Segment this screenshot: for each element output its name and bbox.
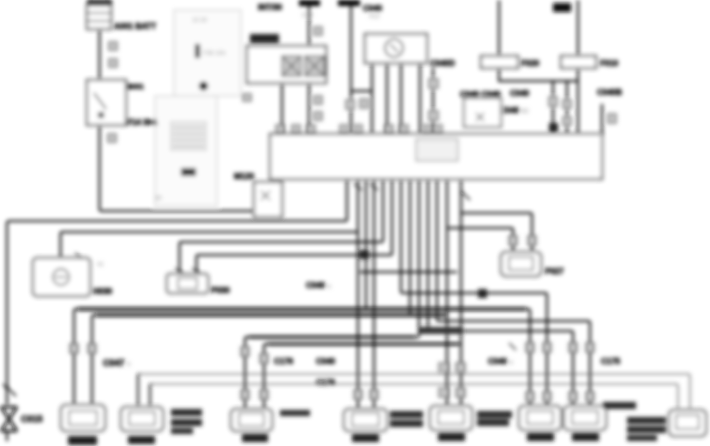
ignition wire 4 (419, 63, 421, 134)
wire relay pin 1 down (281, 83, 283, 134)
band2 top thick segment (249, 336, 415, 339)
svg-text:C047 x: C047 x (103, 358, 131, 368)
pin P043 right lower (260, 390, 268, 399)
svg-text:C040 B2: C040 B2 (500, 106, 529, 115)
svg-text:F14 30A: F14 30A (127, 118, 158, 127)
pin row above junction unit 7 (400, 125, 408, 133)
component box: dashboard assembly lower part (155, 96, 217, 206)
pin a on stub (429, 79, 438, 88)
terminal cap node 2 (338, 0, 360, 6)
connector P076 inner (676, 415, 699, 429)
pin P041 right (370, 390, 378, 399)
label 30 cap (553, 3, 571, 12)
wire fuse F020 top (498, 0, 500, 56)
ignition switch rotor (385, 39, 403, 57)
wire code right of P041 line1 (390, 411, 423, 418)
pin row above junction unit 5 (354, 125, 362, 133)
wire fusebox down to bottom rail (100, 125, 255, 211)
pin P047 right lower (586, 392, 594, 401)
svg-text:C040D: C040D (430, 59, 455, 68)
wire branch col12 east to P027 left (447, 228, 513, 252)
ignition switch rotor mark (390, 44, 398, 52)
svg-text:C040: C040 (363, 4, 383, 13)
connector P046 inner (527, 411, 553, 424)
wire code left of P076 line1 (627, 417, 666, 424)
horn H030 box (33, 258, 90, 296)
relay contact 2 (305, 56, 324, 76)
splice box SP (254, 182, 282, 217)
wire battery to fusebox (99, 29, 101, 80)
relay contact 1 (282, 56, 301, 76)
pin on relay wire a (314, 96, 322, 104)
wire stub x433 (432, 68, 434, 134)
dashboard inner table lines (173, 128, 204, 146)
pin 2 battery wire (109, 59, 117, 67)
connector P038 (61, 405, 105, 431)
svg-text:30: 30 (155, 196, 162, 202)
pin x553 lower junction (549, 123, 558, 132)
fusebox B1 (87, 80, 126, 125)
connector P038 label (68, 436, 97, 445)
svg-text:C040 a: C040 a (488, 357, 513, 366)
fusebox B1 fuse symbol (94, 93, 106, 109)
wire code dash right of P043 (280, 410, 310, 416)
pin row above junction unit 2 (292, 125, 300, 133)
wire trunk col12 down to P045 left (446, 179, 448, 406)
pin P045 right upper (456, 363, 465, 372)
wire fuse F010 top (577, 0, 579, 56)
svg-text:C040: C040 (316, 357, 336, 366)
svg-text:C176: C176 (316, 378, 336, 387)
dashboard dark mark lower (181, 168, 196, 176)
svg-text:M120: M120 (234, 172, 255, 181)
pin on P027 wire right (528, 236, 536, 245)
band2 bottom thick segment (268, 343, 458, 346)
pin P047 left lower (569, 392, 577, 401)
wire branch x567 (566, 81, 568, 134)
pin P045 right lower (456, 388, 465, 397)
pin row above junction unit 6 (385, 125, 393, 133)
svg-text:C040: C040 (510, 89, 530, 98)
pump P030 inner (178, 278, 197, 289)
ground splice symbol C015 (1, 407, 17, 431)
junction dot on wire y255 (360, 250, 369, 259)
svg-text:P027: P027 (545, 267, 564, 276)
bus wire band1 top P038 left to P046 left (74, 309, 530, 406)
wire trunk col10 east y331 to P047 left (428, 179, 573, 406)
pin P046 right lower (543, 392, 551, 401)
wire code text block right of P039 line1 (171, 409, 202, 416)
pin P046 right upper (543, 343, 551, 352)
wire code text block right of P039 line2 (171, 419, 202, 426)
svg-text:B001: B001 (127, 84, 144, 91)
ignition wire 2 (386, 63, 388, 134)
connector P046 (519, 406, 561, 430)
wire code dash above P076 (603, 402, 636, 409)
svg-text:C175: C175 (601, 357, 621, 366)
splice box pin cross (261, 191, 270, 200)
component box: dashboard assembly upper part (174, 10, 241, 96)
relay contact 2 cross (305, 56, 324, 76)
pin on terminal wire (314, 27, 322, 35)
ignition switch box (365, 34, 427, 63)
connector P039 inner (129, 412, 155, 425)
wire trunk col8 filler to band bottom (409, 179, 411, 315)
dashboard fuse mark (195, 44, 200, 58)
connector P047 inner (572, 411, 598, 424)
pin on relay wire b (314, 112, 322, 120)
connector P027 inner (509, 257, 533, 270)
tick right zone (509, 343, 516, 350)
pin x553 upper (549, 97, 557, 106)
pin P047 left upper (569, 343, 577, 352)
battery A1 terminal cap (87, 0, 112, 6)
connector P047 label (572, 433, 599, 441)
tick below junction unit col4 (370, 184, 378, 190)
pin b on stub (429, 111, 438, 120)
svg-text:F36 10A: F36 10A (203, 51, 226, 57)
wire code right of P041 line2 (390, 420, 423, 427)
connector P047 (564, 406, 606, 430)
relay label B002 (250, 34, 279, 43)
wire trunk col1 to left rail (7, 179, 347, 405)
bus wire band1 bottom P038 right (92, 315, 447, 405)
pin row above junction unit 9 (434, 125, 442, 133)
wire trunk col11 east y321 to P047 right (437, 179, 590, 406)
bus wire band1 bottom thick segment (96, 313, 445, 316)
pin P046 left upper (526, 343, 534, 352)
bus wire band1 top thick segment (78, 307, 526, 310)
pin row above junction unit 3 (307, 125, 315, 133)
pin on P027 wire left (509, 236, 517, 245)
connector P039 label (128, 436, 155, 444)
wire trunk col9 west to P043 left (245, 179, 419, 409)
wire trunk col2 down to P041 left (357, 179, 359, 409)
connector P046 label (527, 433, 554, 441)
ignition wire 3 (400, 63, 402, 134)
pin tick P030 wire2 (192, 268, 200, 273)
wire code left of P076 line3 (627, 435, 657, 441)
pin x567 lower (563, 117, 571, 125)
wire branch col13 east to P027 right (461, 213, 532, 252)
pin P045 left upper (439, 363, 448, 372)
pin on stub x593 (608, 114, 616, 123)
connector P045 label (438, 433, 465, 441)
wire fuse F020 to bus (499, 68, 577, 81)
pin tick P030 wire1 (175, 268, 183, 273)
connector P041 label (352, 434, 379, 442)
svg-text:n1: n1 (97, 262, 104, 268)
svg-text:C10: C10 (302, 13, 314, 19)
wire relay pin 2 down (308, 83, 310, 134)
wire trunk col3 filler to band (365, 179, 367, 309)
pin P045 left lower (439, 388, 448, 397)
junction unit inner module (416, 139, 458, 161)
svg-text:A001 BATT: A001 BATT (114, 22, 156, 31)
pin pair P038 right (88, 344, 96, 353)
ground wire tick (3, 384, 16, 396)
wire branch col2 to horn H030 (61, 232, 359, 258)
relay contact 1 cross (282, 56, 301, 76)
junction square on y293 (478, 289, 487, 298)
thick junction bar (419, 327, 463, 334)
pin P043 right (260, 354, 268, 363)
connector P076 (669, 410, 706, 436)
pin x567 upper (563, 100, 571, 108)
wire trunk col7 east to P046 right (401, 179, 547, 406)
horn symbol detail (55, 276, 67, 278)
wire code right of P045 line2 (477, 419, 509, 426)
dashboard black dot (199, 82, 208, 91)
horn symbol (53, 269, 69, 285)
wire trunk col13 down to P045 right (460, 179, 462, 406)
fusebox B1 inner dot (98, 112, 104, 118)
pin P043 left lower (241, 390, 249, 399)
wire code text block right of P039 line3 (171, 428, 193, 434)
connector box with pin (464, 98, 501, 127)
wire branch col13 west to P043 right (264, 344, 461, 409)
pin P041 left (354, 390, 362, 399)
wire P039 left (138, 374, 140, 407)
tick below junction unit col2 (354, 184, 362, 190)
pin on ignition wire 1 (360, 99, 368, 108)
connector P043 label (242, 434, 268, 442)
pump P030 box (167, 274, 208, 293)
pin row above junction unit 8 (423, 125, 431, 133)
connector P039 (121, 407, 163, 431)
pin tick horn top (75, 253, 83, 259)
wire fuse F010 down (577, 68, 579, 134)
connector P038 inner (69, 411, 97, 425)
jog link on long wire (351, 90, 372, 92)
wire stub x593 (601, 104, 603, 134)
svg-text:C176: C176 (274, 357, 294, 366)
long wire from terminal 2 down to junction unit (350, 6, 352, 134)
dashboard inner table (171, 122, 206, 150)
battery A1 internal plates (87, 13, 111, 21)
pin P043 left (241, 347, 249, 356)
svg-text:F010: F010 (600, 59, 619, 68)
pin pair P038 left (70, 344, 78, 353)
wire branch y272 cross link (360, 271, 457, 273)
connector P041 (344, 409, 387, 431)
connector P027 (501, 252, 541, 276)
terminal cap node 30A (299, 0, 320, 6)
wire terminal to relay box (308, 6, 310, 46)
pin on long wire (346, 100, 354, 109)
svg-text:C015: C015 (21, 414, 43, 424)
svg-text:F020: F020 (521, 59, 540, 68)
connector P045 (430, 406, 472, 430)
svg-text:10 20: 10 20 (192, 18, 208, 24)
svg-text:C040 a: C040 a (306, 281, 331, 290)
svg-text:C040B: C040B (597, 88, 622, 97)
wire code right of P045 line1 (477, 411, 512, 418)
dashboard right edge pin (243, 94, 251, 101)
wire trunk col4 down to P041 right (373, 179, 375, 409)
tick below junction unit right (461, 191, 470, 200)
svg-text:H030: H030 (93, 287, 113, 296)
svg-text:A12: A12 (369, 14, 380, 20)
ground stub below (6, 430, 8, 441)
connector P043 (231, 409, 272, 431)
pin 3 on feed wire (108, 134, 116, 142)
wire trunk col5 to P030 wire1 (180, 179, 384, 274)
pin P047 right upper (586, 343, 594, 352)
ignition wire 1 (371, 63, 373, 134)
svg-text:P030: P030 (211, 286, 230, 295)
connector P043 inner (239, 413, 264, 426)
faint wire y384 to P076 (152, 384, 678, 410)
pin row above junction unit 1 (276, 125, 284, 133)
wire P039 right (150, 384, 152, 407)
fuse F010 (561, 56, 596, 68)
pin cross inside connector box (476, 113, 484, 121)
junction unit M120 box (270, 134, 602, 179)
battery A1 (87, 5, 111, 29)
relay box T10 (247, 46, 326, 83)
fuse F020 (481, 56, 518, 68)
wire branch x553 (552, 81, 554, 134)
wire trunk col6 to P030 wire2 (197, 179, 393, 274)
connector P041 inner (352, 413, 379, 426)
wire code left of P076 line2 (627, 426, 666, 433)
pin 1 battery wire (109, 42, 117, 50)
pin row above junction unit 4 (340, 125, 348, 133)
svg-text:INT/30: INT/30 (258, 3, 283, 12)
faint wire y374 to P076 (140, 374, 690, 410)
connector P045 inner (438, 411, 464, 424)
pin P046 left lower (526, 392, 534, 401)
